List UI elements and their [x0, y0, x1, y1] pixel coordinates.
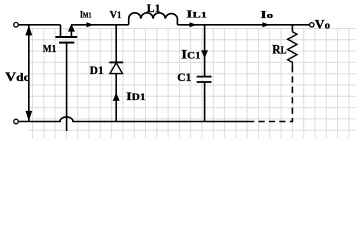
wire RL branch upper	[291, 25, 293, 32]
svg-text:Vo: Vo	[315, 17, 330, 31]
grid major lines	[29, 29, 356, 139]
terminal circle top left	[14, 23, 19, 28]
node V1 branch wire to diode	[115, 25, 117, 63]
svg-text:Io: Io	[260, 9, 273, 21]
resistor RL zigzag	[288, 32, 297, 66]
svg-text:Vdc: Vdc	[5, 69, 30, 84]
svg-text:IL1: IL1	[186, 9, 207, 21]
wire top rail mid segment	[71, 24, 128, 26]
dashed load return wire	[251, 66, 292, 122]
wire C1 branch upper	[204, 25, 206, 77]
capacitor C1 bottom plate	[197, 81, 212, 83]
transistor M1 gate bar	[59, 42, 74, 44]
current arrow ID1	[113, 93, 120, 101]
wire top rail right segment	[177, 24, 309, 26]
current arrow IC1	[201, 50, 208, 58]
svg-text:V1: V1	[110, 10, 122, 21]
diode D1 triangle	[110, 63, 123, 74]
current arrow IL1	[190, 22, 197, 27]
transistor M1 gate lead	[66, 43, 68, 131]
Vdc down arrowhead	[25, 111, 32, 121]
current arrow Io	[263, 22, 270, 27]
inductor L1	[129, 13, 178, 25]
grid minor lines	[29, 29, 356, 139]
current arrow IM1	[87, 22, 94, 27]
Vdc up arrowhead	[25, 25, 32, 35]
transistor M1 source lead with arrow	[70, 28, 72, 37]
bottom rail with hop over gate lead	[18, 117, 251, 122]
svg-text:ID1: ID1	[126, 91, 146, 103]
wire top rail left segment	[18, 24, 60, 26]
Vdc measurement line	[28, 25, 30, 122]
svg-text:IM1: IM1	[80, 10, 92, 20]
diode D1 cathode bar	[109, 61, 123, 63]
capacitor C1 top plate	[197, 76, 212, 78]
transistor M1 drain lead	[60, 25, 62, 37]
wire C1 branch lower	[204, 82, 206, 122]
wire diode to bottom rail	[115, 74, 117, 122]
terminal circle bottom left	[14, 119, 19, 124]
svg-text:L1: L1	[147, 1, 161, 15]
svg-text:D1: D1	[90, 63, 104, 77]
svg-text:C1: C1	[177, 70, 191, 84]
svg-text:M1: M1	[43, 43, 57, 55]
terminal Vo circle	[310, 23, 314, 27]
transistor M1 channel bar	[55, 36, 77, 38]
